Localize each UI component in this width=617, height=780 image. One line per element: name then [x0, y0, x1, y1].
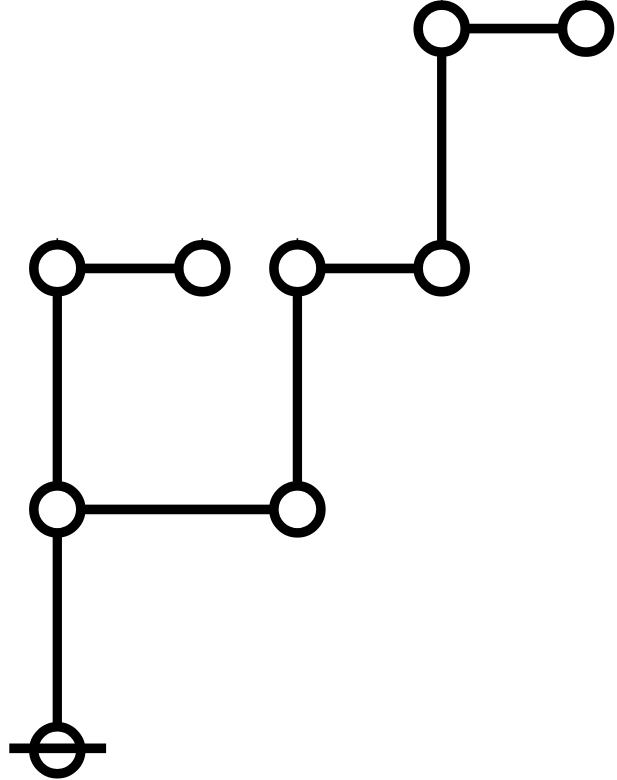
node N7 — [34, 486, 81, 533]
node N6 — [418, 245, 465, 292]
node N4 — [179, 238, 226, 292]
wire N5-N8 (center vertical) — [293, 268, 302, 509]
wire N1-N6 (long vertical right) — [437, 29, 446, 269]
ground node N9 (circle with horizontal bar) — [9, 727, 106, 774]
wire N7-N9 (bottom vertical) — [53, 509, 62, 750]
node N3 — [34, 238, 81, 292]
wire N3-N7 (left vertical) — [53, 268, 62, 509]
wire N1-N2 (top horizontal) — [442, 24, 586, 34]
node N5 — [274, 238, 321, 292]
wire N7-N8 (lower horizontal) — [57, 505, 297, 515]
wire N5-N6 (middle-right horizontal) — [297, 264, 441, 274]
node N1 — [418, 0, 465, 52]
node N2 — [563, 0, 610, 52]
wire N3-N4 (middle-left horizontal) — [57, 264, 202, 274]
node N8 — [274, 486, 321, 533]
